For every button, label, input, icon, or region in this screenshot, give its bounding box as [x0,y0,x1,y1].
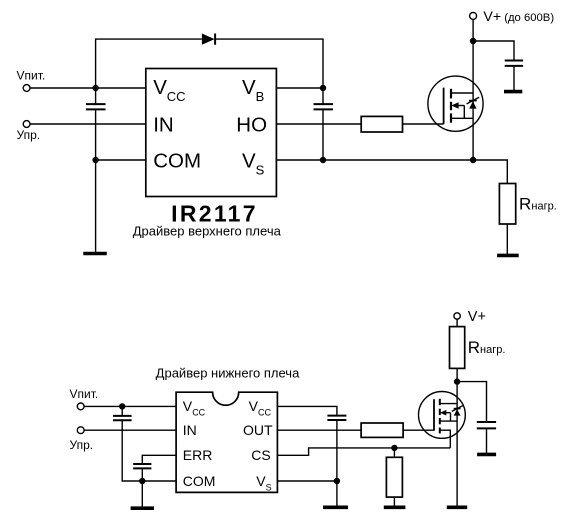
svg-text:Драйвер нижнего плеча: Драйвер нижнего плеча [156,366,300,381]
terminal Упр. (bottom) [77,427,84,434]
ground (R2) [497,254,519,258]
node COM (bottom) [139,478,145,484]
svg-text:CC: CC [192,408,205,418]
wire VS node to ground [336,481,338,506]
wire HO pin to gate resistor [276,123,361,125]
node VCC junction [92,85,98,91]
resistor R2 load [499,184,515,225]
op-amp U1 IR2117 box [146,69,277,197]
ground (R5) [384,505,406,509]
svg-text:V: V [242,76,256,99]
wire C4 to COM [122,421,176,481]
Q2 sense-source lead [440,430,451,448]
svg-text:B: B [256,89,265,104]
terminal Vпит. [23,85,30,92]
Q1 gate bar [443,88,445,124]
svg-text:S: S [256,162,265,177]
Q1 drain tab [451,92,473,94]
svg-text:S: S [266,482,272,492]
Q1 body diode [469,101,476,108]
wire VS pin to load [276,160,507,184]
svg-text:(до 600В): (до 600В) [504,12,554,24]
resistor R1 gate [361,116,402,132]
wire C6 to VS node [336,421,338,482]
node VCC junction (bottom) [119,403,125,409]
Q2 source tab [440,420,457,422]
transistor Q1 MOSFET [428,76,483,131]
wire C7 to ground [486,429,488,453]
node VS bootstrap [320,157,326,163]
svg-text:ERR: ERR [183,447,213,463]
wire R1 to gate [403,123,444,125]
wire Упр to IN pin [84,429,176,431]
wire R4 to drain node [456,368,458,381]
Q2 gate bar [433,399,435,431]
svg-text:COM: COM [153,149,201,172]
svg-text:OUT: OUT [243,422,273,438]
diode D1 bootstrap [202,34,215,45]
svg-text:CS: CS [251,447,270,463]
wire node to R5 [393,448,395,457]
svg-text:Vпит.: Vпит. [70,387,99,401]
wire drain node through Q2 to ground [456,382,458,506]
transistor Q2 MOSFET [419,392,466,448]
wire C1 to ground [95,110,97,252]
svg-text:CC: CC [167,89,186,104]
capacitor C2 bootstrap [314,103,334,105]
Q2 body circle [419,392,466,439]
wire VB pin to node [276,87,323,89]
ground (C7) [477,453,496,457]
wire R3 to gate [403,429,434,431]
wire diode cathode to VB node [215,39,323,88]
svg-text:R: R [468,338,480,357]
svg-text:Драйвер верхнего плеча: Драйвер верхнего плеча [133,224,282,239]
wire VCC node down to capacitor C1 [95,88,97,104]
capacitor C3 [505,60,523,62]
node VS (bottom) [334,478,340,484]
wire C2 to VS node [322,110,324,160]
svg-text:Упр.: Упр. [70,438,94,452]
capacitor C4 [113,415,132,417]
svg-text:V+: V+ [483,9,501,25]
wire OUT pin to gate resistor [277,429,361,431]
svg-text:IN: IN [183,422,197,438]
svg-text:V: V [153,76,167,99]
Q2 channel segments [439,399,441,405]
svg-text:HO: HO [236,113,267,136]
node drain (bottom) [454,378,460,384]
node VB [320,85,326,91]
wire CS pin to sense node [277,448,450,455]
resistor R3 gate [361,423,403,437]
svg-text:V+: V+ [468,309,486,325]
svg-text:R: R [519,195,531,214]
capacitor C6 [327,415,346,417]
ground (top-left) [83,252,107,256]
svg-text:COM: COM [183,473,216,489]
svg-text:IN: IN [153,113,174,136]
wire drain node to C7 [457,382,486,422]
terminal V+ (bottom) [454,313,460,319]
Q1 channel segments [450,89,452,99]
ground (VS bottom) [323,505,348,509]
Q1 source tab [451,117,473,119]
ground (C3) [504,90,522,94]
wire to capacitor C3 [473,41,514,60]
Q1 body circle [428,76,483,131]
wire C3 to ground [513,66,515,90]
wire V+ to R4 [456,319,458,326]
wire C5 to COM node [141,469,143,481]
wire VCC node up to bootstrap diode [96,39,202,88]
wire V+ to drain / VS [472,19,474,160]
node COM junction [92,157,98,163]
svg-text:CC: CC [258,408,271,418]
resistor R4 load [450,327,465,369]
node V+ junction [470,38,476,44]
svg-text:IR2117: IR2117 [171,201,258,227]
svg-text:Упр.: Упр. [17,128,41,142]
svg-text:V: V [242,149,256,172]
ground (Q2 source) [447,505,467,509]
wire ERR pin to C5 [142,455,176,463]
Q1 body arrow [455,105,464,107]
wire R2 to ground [506,224,508,254]
wire VCC right pin to C6 [277,406,337,415]
wire VS pin to node [277,480,337,482]
svg-text:нагр.: нагр. [531,201,556,213]
terminal Упр. [23,121,30,128]
node CS sense [391,445,397,451]
capacitor C5 [133,463,151,465]
wire VB node to C2 [322,88,324,104]
wire Vпит to VCC pin [84,405,176,407]
Q2 drain tab [440,403,457,405]
wire node to C4 [121,406,123,415]
terminal Vпит. (bottom) [77,403,84,410]
svg-text:нагр.: нагр. [480,344,505,356]
wire R5 to ground [393,497,395,505]
wire Vпит to VCC pin [30,87,146,89]
node Q1 source [470,157,476,163]
Q2 body arrow [443,412,451,414]
Q2 body diode [454,409,461,415]
wire Упр to IN pin [30,123,146,125]
capacitor C7 [477,421,496,423]
terminal V+ (top) [470,12,477,19]
ground (COM bottom) [131,506,154,510]
op-amp U2 driver box with notch [176,392,277,492]
capacitor C1 [86,103,106,105]
wire COM pin to node [96,159,146,161]
svg-text:Vпит.: Vпит. [17,69,46,83]
resistor R5 sense [386,457,402,497]
wire COM node to ground [141,481,143,507]
